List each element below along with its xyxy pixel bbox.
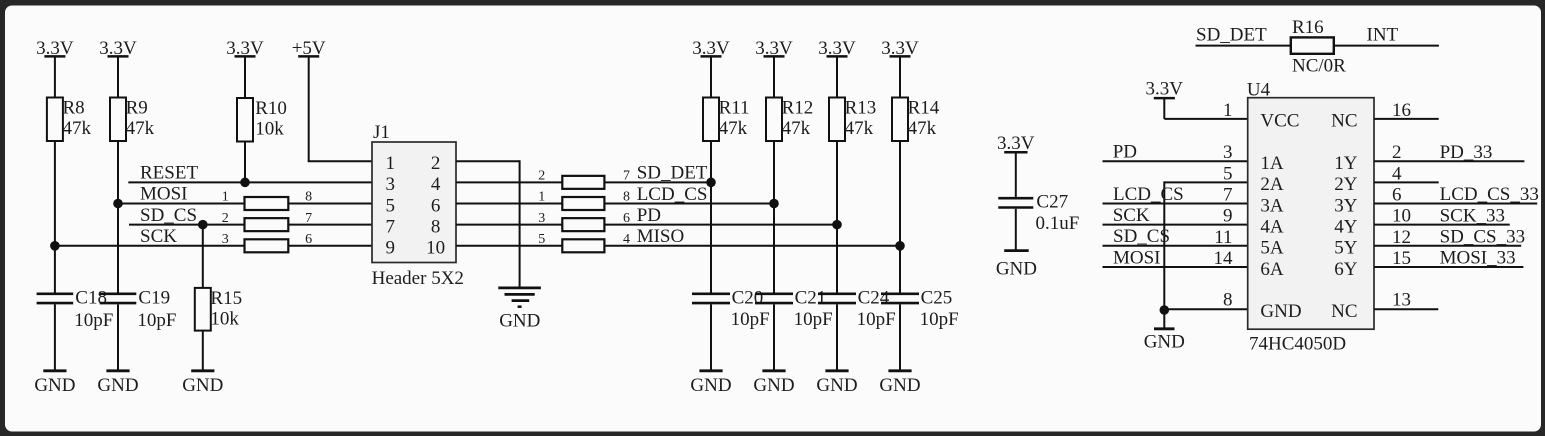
wire U4 pin 10 [1374,224,1510,226]
resistor R16 NC/0R [1291,37,1334,53]
svg-text:3: 3 [222,232,229,247]
wire R11 to C20 [710,141,712,294]
wire U4 pin 13 [1374,308,1438,310]
IC U4 74HC4050D [1248,98,1374,330]
resistor R14 47k [892,98,908,142]
resistor R11 47k [703,98,719,142]
svg-text:NC: NC [1331,111,1357,132]
node junction on R13 column [832,220,842,230]
svg-text:4Y: 4Y [1334,216,1358,237]
wire C18 to ground [54,304,56,370]
svg-text:7: 7 [385,216,395,237]
wire MOSI from R9 to series resistor [118,203,245,205]
ground GND under R15 [191,369,214,372]
capacitor C21 10pF [755,292,793,295]
wire SD_CS to U4 pin 11 [1103,245,1248,247]
wire MOSI to U4 pin 14 [1103,266,1248,268]
svg-text:GND: GND [97,375,138,396]
svg-text:4: 4 [623,232,630,247]
node junction on R14 column [895,241,905,251]
svg-text:PD_33: PD_33 [1440,142,1493,163]
svg-text:NC/0R: NC/0R [1292,55,1346,76]
wire U4 pin 12 [1374,245,1521,247]
wire R16 to INT [1334,45,1439,47]
svg-text:47k: 47k [126,118,155,139]
svg-text:MOSI_33: MOSI_33 [1440,248,1516,269]
svg-text:10k: 10k [255,119,284,140]
svg-text:MISO: MISO [637,226,685,247]
node MOSI junction on R9 column [113,199,123,209]
wire U4 pin 4 [1374,181,1439,183]
svg-text:R8: R8 [63,97,85,118]
svg-text:10: 10 [1392,206,1411,227]
svg-text:1: 1 [538,190,545,205]
svg-text:GND: GND [753,375,794,396]
svg-text:47k: 47k [63,118,92,139]
svg-text:3.3V: 3.3V [1145,78,1183,99]
wire SCK resistor to J1 pin 9 [288,245,372,247]
svg-text:1Y: 1Y [1334,153,1358,174]
wire MOSI resistor to J1 pin 5 [288,203,372,205]
svg-text:6: 6 [305,232,312,247]
wire LCD_CS to pull-up column [604,203,774,205]
svg-text:47k: 47k [782,118,811,139]
capacitor C24 10pF [818,292,856,295]
svg-text:R14: R14 [908,97,940,118]
ground GND under C27 [1004,249,1028,252]
wire U4 pin 2 [1374,160,1524,162]
svg-text:5: 5 [1223,163,1233,184]
svg-text:GND: GND [1144,331,1185,352]
wire SD_DET to pull-up column [604,181,711,183]
svg-text:6Y: 6Y [1334,259,1358,280]
wire 3.3V to R14 [899,56,901,97]
node SCK junction on R8 column [50,241,60,251]
svg-text:74HC4050D: 74HC4050D [1249,334,1346,355]
svg-text:7: 7 [623,168,630,183]
capacitor C20 10pF [692,292,730,295]
svg-text:3: 3 [1223,142,1233,163]
wire 3.3V to R8 [54,56,56,97]
svg-text:NC: NC [1331,301,1357,322]
svg-text:R13: R13 [845,97,877,118]
svg-text:1: 1 [385,153,395,174]
wire C21 to ground [773,304,775,370]
svg-text:U4: U4 [1247,79,1271,100]
svg-text:C21: C21 [795,287,827,308]
node RESET junction [240,178,250,188]
wire SD_CS to R15 [202,225,204,288]
earth ground under J1 [498,287,541,290]
svg-text:3: 3 [385,174,395,195]
wire 3.3V to R11 [710,56,712,97]
wire SCK to U4 pin 9 [1103,224,1248,226]
series resistor SD_CS 2-7 [245,218,289,231]
svg-text:8: 8 [623,190,630,205]
svg-text:1: 1 [1223,100,1233,121]
svg-text:MOSI: MOSI [1113,247,1161,268]
capacitor C18 10pF [37,292,74,295]
wire R15 to ground [202,331,204,371]
node junction on R11 column [706,178,716,188]
resistor R9 47k [110,98,126,142]
wire R8 to C18 [54,141,56,294]
svg-text:PD: PD [1113,142,1137,163]
wire C19 to ground [117,304,119,370]
wire 3.3V to R10 [244,56,246,98]
wire R10 to RESET net [244,142,246,183]
wire MISO to pull-up column [604,245,900,247]
svg-text:12: 12 [1392,227,1411,248]
ground GND under C19 [106,369,129,372]
wire C20 to ground [710,304,712,370]
svg-text:14: 14 [1214,248,1234,269]
svg-text:47k: 47k [719,118,748,139]
svg-text:PD: PD [637,205,661,226]
svg-text:LCD_CS_33: LCD_CS_33 [1440,184,1539,205]
svg-text:1A: 1A [1260,153,1284,174]
ground GND under C18 [43,369,66,372]
svg-text:10k: 10k [210,309,239,330]
resistor R15 10k [195,288,211,331]
svg-text:4A: 4A [1260,216,1284,237]
svg-text:R9: R9 [126,97,148,118]
svg-text:2: 2 [1392,142,1402,163]
svg-text:1: 1 [222,190,229,205]
svg-text:SD_DET: SD_DET [637,163,708,184]
svg-text:SCK: SCK [1113,205,1150,226]
svg-text:C19: C19 [138,287,170,308]
resistor R13 47k [829,98,845,142]
svg-text:47k: 47k [908,118,937,139]
svg-text:16: 16 [1392,100,1411,121]
svg-text:Header 5X2: Header 5X2 [372,268,464,289]
resistor R8 47k [47,98,63,142]
series resistor 1-8 [562,197,604,210]
svg-text:7: 7 [1223,185,1233,206]
capacitor C19 10pF [100,292,137,295]
svg-text:R11: R11 [719,97,750,118]
svg-text:C25: C25 [921,287,953,308]
svg-text:8: 8 [305,190,312,205]
wire C27 to ground [1015,209,1017,251]
wire LCD_CS to U4 pin 7 [1103,203,1248,205]
svg-text:6A: 6A [1260,259,1284,280]
wire R12 to C21 [773,141,775,294]
wire SCK from R8 to series resistor [55,245,245,247]
svg-text:C18: C18 [75,287,107,308]
wire PD to U4 pin 3 [1103,160,1248,162]
svg-text:10pF: 10pF [74,310,113,331]
svg-text:5A: 5A [1260,238,1284,259]
svg-text:GND: GND [182,375,223,396]
svg-text:SCK_33: SCK_33 [1440,205,1505,226]
wire J1 to series resistor 2 [456,181,562,183]
svg-text:C20: C20 [732,287,764,308]
svg-text:3: 3 [538,211,545,226]
series resistor 2-7 [562,176,604,189]
svg-text:3Y: 3Y [1334,195,1358,216]
wire U4 pin 16 [1374,118,1439,120]
svg-text:GND: GND [34,375,75,396]
wire junction to ground bar [1163,310,1165,329]
svg-text:9: 9 [1223,206,1233,227]
node ground junction [1160,305,1170,315]
wire C25 to ground [899,304,901,370]
wire 3.3V to R12 [773,56,775,97]
svg-text:2: 2 [538,168,545,183]
wire 3.3V to R9 [117,56,119,97]
svg-text:6: 6 [623,211,630,226]
svg-text:10pF: 10pF [794,309,833,330]
svg-text:LCD_CS: LCD_CS [637,184,708,205]
svg-text:VCC: VCC [1260,111,1299,132]
series resistor 5-4 [562,239,604,252]
svg-text:GND: GND [690,375,731,396]
svg-text:GND: GND [879,375,920,396]
wire J1 pin 2 to ground [456,160,520,162]
wire J1 to series resistor 3 [456,224,562,226]
ground GND under U4 [1154,327,1175,330]
node SD_CS junction [198,220,208,230]
svg-text:5: 5 [538,232,545,247]
wire SD_CS to series resistor [129,224,245,226]
svg-text:0.1uF: 0.1uF [1036,213,1080,234]
svg-text:SD_CS_33: SD_CS_33 [1440,227,1526,248]
svg-text:INT: INT [1367,25,1399,46]
svg-text:R12: R12 [782,97,814,118]
svg-text:J1: J1 [373,122,390,143]
wire 3.3V to R13 [836,56,838,97]
wire +5V down to J1 pin 1 [308,56,310,161]
svg-text:15: 15 [1392,248,1411,269]
svg-text:2Y: 2Y [1334,174,1358,195]
svg-text:5Y: 5Y [1334,238,1358,259]
svg-text:10pF: 10pF [857,309,896,330]
svg-text:GND: GND [1260,301,1301,322]
svg-text:2: 2 [222,211,229,226]
wire U4 pin 5 tie to ground column [1164,181,1247,183]
svg-text:5: 5 [385,195,395,216]
wire J1 to series resistor 1 [456,203,562,205]
svg-text:8: 8 [1223,289,1233,310]
svg-text:47k: 47k [845,118,874,139]
svg-text:4: 4 [1392,163,1402,184]
svg-text:10pF: 10pF [920,309,959,330]
svg-text:8: 8 [431,216,441,237]
svg-text:GND: GND [816,375,857,396]
svg-text:SD_CS: SD_CS [1113,226,1170,247]
svg-text:2: 2 [431,153,441,174]
wire U4 pin 6 [1374,203,1537,205]
svg-text:C27: C27 [1036,191,1068,212]
series resistor MOSI 1-8 [245,197,289,210]
resistor R10 10k [237,98,253,142]
svg-text:3A: 3A [1260,195,1284,216]
capacitor C27 0.1uF [998,197,1033,200]
svg-text:4: 4 [431,174,441,195]
svg-text:6: 6 [431,195,441,216]
node junction on R12 column [769,199,779,209]
wire R9 to C19 [117,141,119,294]
svg-text:MOSI: MOSI [140,184,188,205]
resistor R12 47k [766,98,782,142]
svg-text:10: 10 [426,238,445,259]
wire SD_CS resistor to J1 pin 7 [288,224,372,226]
svg-text:RESET: RESET [140,163,198,184]
wire C24 to ground [836,304,838,370]
svg-text:SD_CS: SD_CS [140,205,197,226]
wire U4 pin 15 [1374,266,1523,268]
svg-text:7: 7 [305,211,312,226]
svg-text:2A: 2A [1260,174,1284,195]
svg-text:3.3V: 3.3V [997,133,1035,154]
svg-text:LCD_CS: LCD_CS [1113,184,1184,205]
wire SD_DET to R16 [1196,45,1291,47]
wire PD to pull-up column [604,224,837,226]
wire J1 to series resistor 5 [456,245,562,247]
series resistor 3-6 [562,218,604,231]
svg-text:GND: GND [499,310,540,331]
svg-text:11: 11 [1214,227,1232,248]
svg-text:R10: R10 [255,98,287,119]
svg-text:9: 9 [385,238,395,259]
svg-text:6: 6 [1392,185,1402,206]
wire R13 to C24 [836,141,838,294]
wire 3.3V to U4 pin 1 [1163,98,1165,119]
ground GND under C20 [699,369,722,372]
series resistor SCK 3-6 [245,239,289,252]
ground GND under C21 [762,369,785,372]
svg-text:C24: C24 [858,287,890,308]
wire RESET to J1 pin 3 [128,181,372,183]
wire U4 pin 8 to ground [1164,308,1247,310]
svg-text:SD_DET: SD_DET [1196,25,1267,46]
svg-text:R15: R15 [210,288,242,309]
svg-text:SCK: SCK [140,226,177,247]
wire R14 to C25 [899,141,901,294]
wire 3.3V to C27 [1015,152,1017,197]
ground GND under C24 [825,369,848,372]
ground GND under C25 [888,369,911,372]
svg-text:10pF: 10pF [137,310,176,331]
svg-text:13: 13 [1392,289,1411,310]
svg-text:R16: R16 [1292,17,1324,38]
svg-text:GND: GND [996,258,1037,279]
svg-text:10pF: 10pF [731,309,770,330]
connector J1 Header 5X2 [372,142,456,263]
capacitor C25 10pF [881,292,919,295]
